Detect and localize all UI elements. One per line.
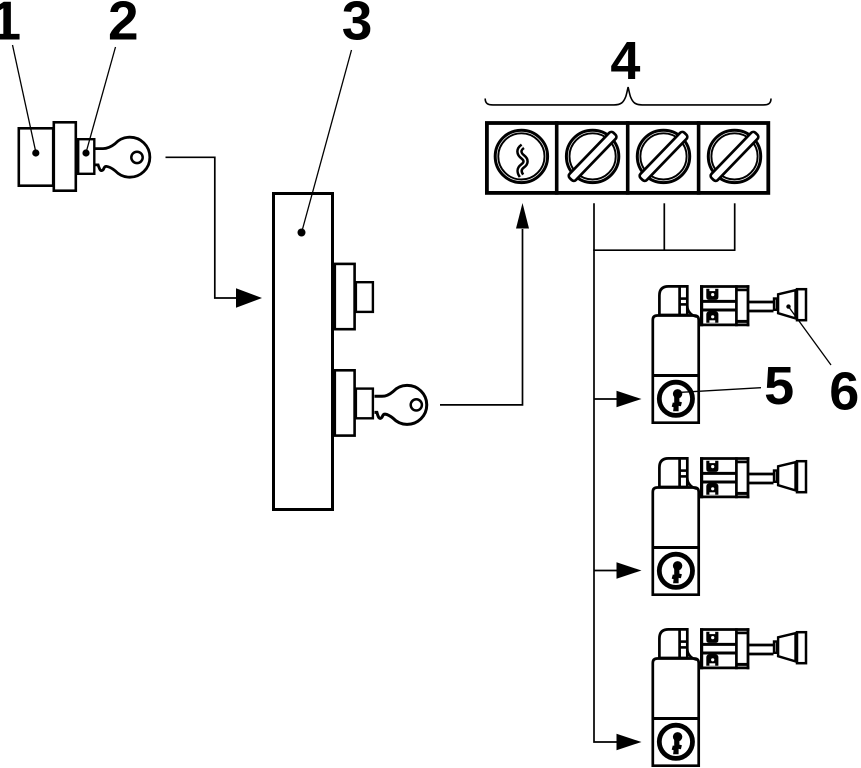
cylinder 2 (78, 139, 94, 174)
leader line 1 (13, 45, 36, 152)
housing block 1 (19, 128, 53, 185)
divider a (555, 121, 559, 195)
cell 3 knob slot (638, 131, 688, 182)
branch wire 1 (594, 398, 617, 400)
dot 1 (32, 149, 39, 156)
cell 1 outer circle (495, 130, 547, 182)
svg-text:3: 3 (342, 0, 373, 51)
bus joining wire (593, 249, 735, 251)
drop wire from cell 4 (734, 203, 736, 250)
cell 2 knob slot (568, 131, 618, 182)
svg-text:6: 6 (829, 361, 859, 421)
leader line 5 (681, 388, 761, 393)
arrowhead into body 3 (236, 288, 262, 308)
branch arrowhead 2 (617, 562, 642, 578)
divider c (697, 121, 701, 195)
cell 2 outer circle (566, 130, 618, 182)
svg-text:4: 4 (610, 31, 640, 91)
svg-text:1: 1 (0, 0, 21, 51)
lock assembly row 1 (652, 285, 807, 423)
svg-text:2: 2 (108, 0, 139, 51)
lock assembly row 3 (652, 628, 807, 766)
upper boss inner (356, 282, 373, 312)
cell 3 outer circle (637, 130, 689, 182)
divider b (626, 121, 630, 195)
cell 4 outer circle (708, 130, 760, 182)
drop wire from cell 3 (663, 203, 665, 250)
key hub dot (label 6 anchor) (786, 304, 790, 308)
leader line 6 (789, 307, 832, 365)
key 2 (bow and blade) (96, 137, 150, 177)
leader line 2 (86, 47, 115, 152)
bank outer frame (487, 123, 768, 193)
svg-text:5: 5 (764, 356, 794, 416)
key 2 bow hole (131, 152, 142, 163)
wire key3 up to bank (440, 229, 523, 405)
cell 4 inner circle (711, 133, 757, 179)
cell 1 keyway squiggle (519, 146, 525, 176)
cell 3 inner circle (640, 133, 686, 179)
branch arrowhead 1 (617, 391, 642, 407)
wire key2 to body3 (166, 157, 238, 298)
body 3 (274, 194, 333, 510)
key 3 (bow and blade) (375, 385, 427, 424)
dot 3 (298, 229, 306, 237)
branch wire 2 (594, 570, 617, 572)
brace (485, 87, 771, 105)
flange plate (54, 122, 76, 190)
cell 2 inner circle (570, 133, 616, 179)
cell 4 knob slot (709, 131, 759, 182)
drop wire from cell 2 (594, 203, 617, 742)
lock assembly row 2 (652, 457, 807, 595)
dot 2 (82, 149, 89, 156)
cell 1 inner circle (498, 133, 544, 179)
upper boss outer (335, 264, 355, 329)
arrowhead up into bank (516, 203, 529, 229)
key 3 bow hole (411, 399, 422, 410)
branch arrowhead 3 (617, 734, 642, 750)
lower boss inner (356, 389, 373, 419)
lower boss outer (335, 370, 355, 435)
leader line 3 (302, 50, 352, 231)
